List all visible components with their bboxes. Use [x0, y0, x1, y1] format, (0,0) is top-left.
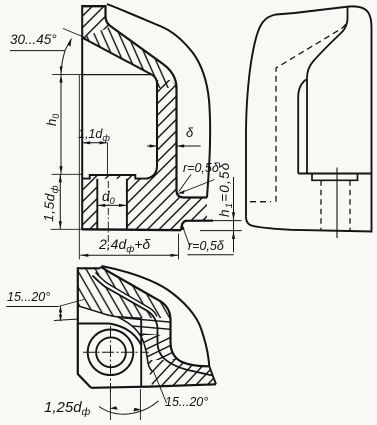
- wire: boss square rounded corner: [109, 324, 141, 346]
- wire: boss bottom thin extension right: [200, 230, 242, 232]
- hatch fill: slanted thickening band: [83, 27, 177, 89]
- svg-text:δ: δ: [186, 125, 194, 140]
- node: white taper strip inside band: [92, 272, 158, 321]
- wire: outer contour: [246, 6, 372, 231]
- hatch fill: band transition zone: [78, 267, 216, 386]
- dimension h1=0.5d vertical: [233, 177, 235, 252]
- svg-text:r=0,5δ: r=0,5δ: [188, 239, 225, 253]
- dimension 1,5d vertical: [59, 174, 61, 229]
- wire: boss spot face step: [312, 174, 358, 181]
- wire: outer rounded body silhouette curve: [107, 4, 210, 198]
- wire: taper strip lower edge L2 continuing as band inner edge: [93, 276, 213, 376]
- wire: wall inner face / boss left face vertical edge: [81, 5, 83, 229]
- wire: thin extension of taper slant: [63, 29, 86, 39]
- wire: boss bottom extension line left: [51, 228, 82, 230]
- wire: taper strip upper edge L1: [96, 273, 158, 317]
- node: hole axis centerline: [336, 168, 338, 239]
- svg-text:15...20°: 15...20°: [7, 290, 50, 304]
- wire: hidden inner wall dashed: [276, 20, 348, 202]
- wire: ledge bottom thin extension right: [213, 220, 242, 222]
- wire: inner opening fillet edge: [298, 80, 306, 174]
- wire: r=0.5d step fillet up to ledge bottom: [181, 221, 213, 231]
- wire: outer rounded body silhouette curve plan: [102, 266, 210, 366]
- hatch fill: bottom band: [78, 267, 216, 386]
- hatch fill: top slanted wall band: [78, 267, 216, 386]
- wire: boss square top edge: [78, 323, 109, 325]
- hatch fill: chimney wall top: [83, 5, 112, 38]
- dimension h0 vertical: [60, 75, 62, 175]
- node: hole centerline dash-dot: [107, 181, 109, 250]
- svg-text:h0: h0: [44, 114, 61, 126]
- hole outer circle (spot face): [88, 330, 134, 376]
- wire: bottom view left edge with chamfer: [78, 267, 91, 388]
- hole inner circle: [96, 337, 126, 367]
- svg-text:h1=0,5δ: h1=0,5δ: [217, 162, 235, 217]
- wire: band cut end: [209, 366, 216, 384]
- wire: drilled hole d0 walls: [97, 179, 127, 229]
- node: horizontal centerline: [83, 351, 149, 353]
- svg-text:1,25dф: 1,25dф: [44, 399, 91, 418]
- wire: bottom left fillet and bottom edge: [246, 217, 373, 232]
- wire: wall right profile chimney-slant-vertical-ledge top: [106, 5, 208, 198]
- wire: taper edge B toward boss: [78, 306, 141, 318]
- wire: bottom view top edge: [78, 267, 100, 269]
- hatch fill: vertical wall band, boss block and ledge (hole cut out): [82, 80, 207, 230]
- dimension 15...20 degrees lower right: [153, 370, 167, 403]
- svg-text:15...20°: 15...20°: [165, 395, 208, 409]
- wire: hidden ledge step dashed: [250, 201, 271, 203]
- wire: boss bottom face: [82, 228, 181, 231]
- wire: taper fork edge to knee: [118, 317, 153, 371]
- hatch fill: knee of the band: [78, 267, 216, 386]
- svg-text:1,5dф: 1,5dф: [41, 184, 61, 222]
- svg-text:30...45°: 30...45°: [10, 32, 57, 47]
- wire: boss square right edge: [140, 318, 142, 387]
- dimension 2,4d+delta bottom: [79, 75, 178, 260]
- wire: h0 bottom extension line: [52, 173, 82, 175]
- svg-text:r=0,5δ: r=0,5δ: [183, 161, 220, 175]
- wire: bottom edge: [91, 384, 216, 388]
- dimension 1,25d with curved dimension line: [110, 389, 140, 420]
- wire: cavity floor and machining pad: [82, 175, 148, 179]
- wire: wall top edge: [83, 5, 107, 7]
- svg-text:2,4dф+δ: 2,4dф+δ: [98, 236, 150, 255]
- wire: band outer boundary: [100, 267, 209, 366]
- svg-text:1,1dф: 1,1dф: [78, 127, 110, 143]
- wire: hidden hole sides dashed: [321, 180, 350, 231]
- wire: opening bottom ledge edge: [298, 173, 371, 175]
- wire: taper bottom reference line: [83, 74, 153, 76]
- wire: inner opening edge from top: [307, 7, 348, 174]
- node: vertical centerline: [110, 326, 112, 392]
- wire: taper outer edge 30..45 slant: [83, 38, 153, 75]
- wire: slant into vertical band left edge: [147, 75, 157, 179]
